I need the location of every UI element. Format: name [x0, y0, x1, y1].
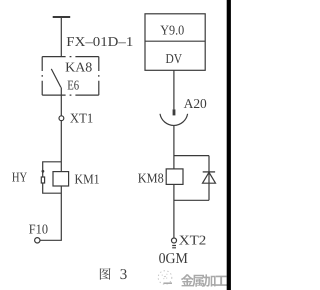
caption glyph 图 — [100, 268, 111, 280]
connector socket A20 (arc) — [160, 114, 188, 126]
coil KM1 (contactor coil box) — [53, 172, 69, 186]
wire: KM8 down to terminal XT2 — [173, 184, 175, 238]
svg-text:E6: E6 — [67, 77, 79, 92]
PLC output block Y9.0 / DV — [145, 14, 205, 71]
relay contact KA8 (NO contact blade) — [51, 69, 61, 88]
svg-text:0GM: 0GM — [159, 251, 188, 267]
wire: PLC block down to connector A20 — [173, 70, 175, 109]
svg-text:KM8: KM8 — [138, 171, 164, 186]
svg-text:HY: HY — [12, 170, 27, 185]
terminal XT1 (open circle) — [59, 116, 64, 121]
wire: XT1 down to KM1 coil — [60, 121, 62, 172]
wire: contact blade to terminal XT1 — [60, 87, 62, 116]
watermark logo (speckled circle) — [158, 271, 172, 285]
wire: diode branch top — [174, 155, 209, 157]
divider of PLC block — [145, 40, 205, 42]
svg-text:F10: F10 — [29, 222, 48, 237]
wire: diode branch right vertical — [208, 156, 210, 201]
terminal F10 (open circle) — [35, 238, 40, 243]
coil KM8 (contactor coil box) — [166, 169, 183, 185]
svg-text:KM1: KM1 — [75, 171, 100, 186]
wire: T-bar down to KA8 enclosure — [60, 17, 62, 57]
svg-text:A20: A20 — [184, 96, 207, 111]
svg-text:3: 3 — [120, 267, 128, 283]
wire: HY branch (parallel loop left of KM1 coil) — [43, 162, 62, 193]
wire: diode branch bottom — [174, 199, 209, 201]
wire: connector down to KM8 coil — [173, 126, 175, 169]
diode V (freewheel) cathode bar — [203, 171, 215, 173]
svg-text:XT2: XT2 — [179, 233, 207, 248]
watermark text 金属加工 — [181, 274, 228, 287]
svg-text:DV: DV — [166, 51, 183, 66]
svg-text:FX–01D–1: FX–01D–1 — [66, 34, 133, 49]
connector pin A20 (filled plug pin) — [173, 109, 176, 115]
enclosure dash-dot boundary around relay contact KA8 : top edge — [42, 56, 99, 58]
terminal XT2 tail squiggle — [172, 246, 176, 248]
page margin black bar (right edge) — [227, 0, 231, 290]
junction dot on HY branch — [42, 170, 45, 173]
enclosure bottom edge — [42, 94, 99, 96]
enclosure right edge — [98, 57, 100, 96]
indicator HY (small element body) — [41, 177, 44, 183]
terminal T-bar (supply tap, left branch) — [53, 16, 70, 18]
svg-text:XT1: XT1 — [70, 111, 93, 126]
wire: KM1 down and left to fuse terminal F10 — [40, 186, 61, 240]
terminal XT2 (open circle) — [172, 238, 177, 243]
svg-text:Y9.0: Y9.0 — [160, 23, 184, 38]
svg-text:KA8: KA8 — [65, 59, 92, 74]
enclosure left edge — [41, 57, 43, 96]
diode V triangle — [203, 172, 216, 183]
